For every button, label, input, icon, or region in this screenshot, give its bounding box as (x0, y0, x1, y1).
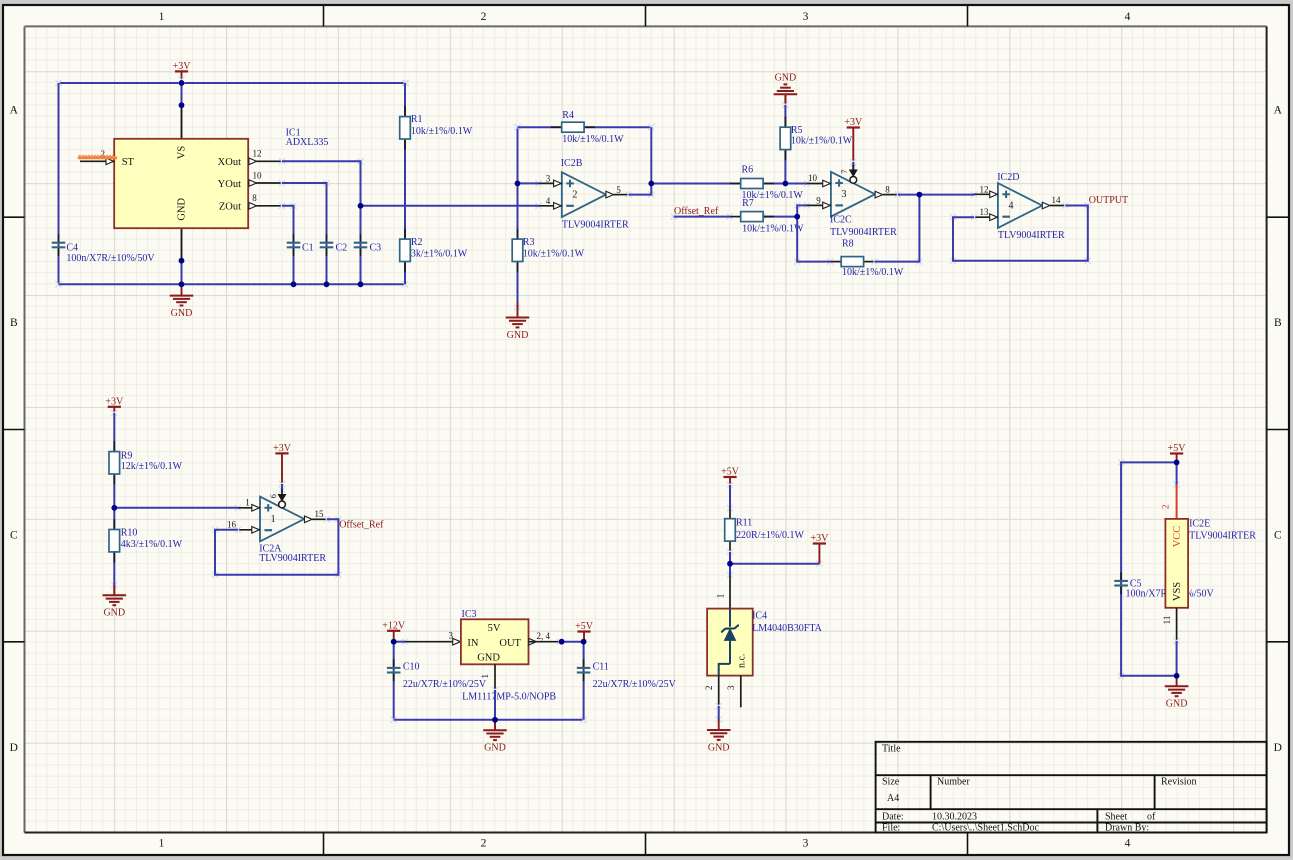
pin IC4 2 (704, 676, 719, 706)
svg-text:R2: R2 (411, 237, 423, 248)
op-amp IC2A V+ power pin bubble (268, 489, 286, 508)
svg-text:R4: R4 (562, 110, 574, 121)
op-amp IC2B (562, 172, 606, 217)
wire XOut to C3 column (279, 158, 364, 164)
svg-text:File:: File: (882, 822, 900, 833)
resistor R5 label (791, 125, 853, 147)
node +12V junction (391, 639, 397, 645)
wire R3 column (514, 124, 520, 311)
pin IC2B 5 output (606, 185, 629, 198)
svg-text:GND: GND (507, 330, 529, 341)
svg-text:7: 7 (839, 170, 849, 174)
svg-text:OUT: OUT (499, 638, 521, 649)
wire GND pin down (492, 687, 498, 693)
svg-text:TLV9004IRTER: TLV9004IRTER (998, 230, 1065, 241)
pin IC2D 13 (974, 207, 998, 221)
pin IC1 VS stub (181, 105, 183, 139)
svg-text:4: 4 (546, 196, 551, 206)
node IC2E bottom junction (1174, 673, 1180, 679)
svg-text:10.30.2023: 10.30.2023 (932, 811, 977, 822)
svg-text:10k/±1%/0.1W: 10k/±1%/0.1W (842, 267, 904, 278)
resistor R10 label (121, 528, 183, 551)
pin IC2E 11 (VSS) (1162, 608, 1176, 641)
node VS wire junction (179, 80, 185, 86)
svg-text:22u/X7R/±10%/25V: 22u/X7R/±10%/25V (593, 679, 677, 690)
ground GND under R3 (517, 302, 519, 308)
svg-text:Offset_Ref: Offset_Ref (674, 206, 719, 217)
svg-text:LM4040B30FTA: LM4040B30FTA (752, 623, 823, 634)
pin IC1 ST (pin 2) (80, 149, 114, 165)
ground GND under IC1 (170, 285, 194, 319)
svg-text:2: 2 (481, 838, 487, 850)
svg-text:ST: ST (122, 157, 135, 168)
wire IC4 pin2 to ground (716, 703, 722, 723)
resistor R7 (730, 212, 774, 222)
node IC2B noninverting node (515, 181, 521, 187)
svg-text:Offset_Ref: Offset_Ref (339, 520, 384, 531)
wire VS supply stub (178, 71, 184, 105)
svg-text:OUTPUT: OUTPUT (1089, 195, 1128, 206)
svg-text:IC2D: IC2D (997, 172, 1019, 183)
svg-text:Revision: Revision (1161, 776, 1197, 787)
svg-text:13: 13 (980, 207, 990, 217)
svg-text:C11: C11 (593, 662, 609, 673)
svg-text:3k/±1%/0.1W: 3k/±1%/0.1W (411, 249, 468, 260)
pin IC2B 4 (539, 196, 562, 209)
wire down to R8 (794, 259, 833, 265)
title block outline (876, 742, 1267, 833)
svg-text:3: 3 (842, 189, 847, 200)
resistor R9 (109, 441, 120, 484)
resistor R9 label (121, 451, 183, 472)
svg-text:10: 10 (808, 173, 818, 183)
component IC1 designator (286, 127, 329, 148)
node VS pin tip junction (179, 102, 185, 108)
svg-text:+5V: +5V (575, 621, 594, 632)
svg-text:R8: R8 (842, 238, 854, 249)
svg-text:R1: R1 (411, 114, 423, 125)
svg-text:2, 4: 2, 4 (537, 631, 551, 641)
svg-text:GND: GND (177, 198, 188, 221)
wire IC2B out to IC2C pin10 (804, 180, 810, 186)
svg-text:1: 1 (480, 674, 490, 679)
ground GND under IC2E (1165, 676, 1189, 710)
op-amp IC2D (998, 183, 1042, 228)
pin IC2D 14 output (1042, 195, 1065, 209)
power +3V for IC2C (844, 117, 863, 128)
svg-text:+3V: +3V (173, 61, 192, 72)
wire +12V stub (393, 631, 395, 642)
svg-text:R9: R9 (121, 451, 133, 462)
svg-text:R10: R10 (121, 528, 138, 539)
svg-text:14: 14 (1052, 195, 1062, 205)
pin IC2A 15 output (305, 509, 327, 522)
svg-text:11: 11 (1162, 616, 1172, 625)
wire node to +3V tap (816, 561, 822, 567)
resistor R1 label (411, 114, 473, 137)
svg-text:8: 8 (252, 193, 257, 203)
svg-text:XOut: XOut (218, 157, 241, 168)
resistor R3 (512, 229, 523, 272)
wire R11 to node (727, 549, 733, 555)
margin row labels left (10, 105, 19, 754)
component IC1 ADXL335 body (114, 139, 248, 228)
svg-text:10: 10 (253, 170, 263, 180)
resistor R10 (109, 519, 120, 562)
svg-text:D: D (10, 742, 18, 754)
pin IC2A 1 (238, 497, 260, 511)
svg-text:Title: Title (882, 744, 901, 755)
svg-text:TLV9004IRTER: TLV9004IRTER (562, 220, 629, 231)
pin IC1 YOut (pin 10) (248, 170, 282, 186)
ground GND under R10 (103, 585, 127, 619)
svg-text:C5: C5 (1130, 579, 1142, 590)
wire divider to IC2A pin1 (235, 505, 241, 511)
node IC2C output junction (917, 192, 923, 198)
power +3V for IC2A (273, 443, 292, 454)
svg-text:+12V: +12V (382, 621, 406, 632)
pin IC4 1 (715, 564, 733, 609)
wire +3V to IC2C power pin (852, 128, 854, 163)
margin row labels right (1274, 105, 1283, 754)
component IC4 body (707, 609, 753, 676)
capacitor C11 (577, 659, 591, 681)
resistor R6 label (742, 165, 804, 201)
svg-text:GND: GND (477, 653, 500, 664)
resistor R8 (830, 257, 874, 267)
svg-text:4: 4 (1125, 11, 1131, 23)
wire +12V to IN pin (402, 639, 408, 645)
wire IC2B output to node (625, 192, 654, 198)
svg-text:12k/±1%/0.1W: 12k/±1%/0.1W (121, 461, 183, 472)
node XOut branch junction (358, 203, 364, 209)
svg-text:3: 3 (449, 631, 454, 641)
capacitor C11 label (593, 662, 677, 690)
zener diode symbol inside IC4 (719, 609, 739, 676)
wire IC2C output to IC2D (895, 192, 977, 198)
svg-text:R6: R6 (742, 165, 754, 176)
resistor R11 label (736, 517, 805, 541)
power +5V at regulator output (575, 621, 594, 632)
wire X signal to IC2B inverting input (535, 203, 541, 209)
svg-text:+3V: +3V (844, 117, 863, 128)
capacitor C10 label (403, 662, 487, 690)
node R7-R8 junction (794, 214, 800, 220)
svg-text:C: C (10, 530, 18, 542)
resistor R2 label (411, 237, 468, 260)
pin IC3 IN (pin 3) (405, 631, 461, 645)
svg-text:3: 3 (803, 838, 809, 850)
capacitor C5 value label (partly hidden) (1126, 589, 1215, 600)
svg-text:15: 15 (315, 509, 325, 519)
svg-text:10k/±1%/0.1W: 10k/±1%/0.1W (562, 134, 624, 145)
svg-text:22u/X7R/±10%/25V: 22u/X7R/±10%/25V (403, 679, 487, 690)
svg-text:C10: C10 (403, 662, 420, 673)
svg-text:4: 4 (1009, 201, 1014, 212)
power +3V for divider (105, 397, 124, 408)
svg-text:IC2E: IC2E (1189, 519, 1210, 530)
pin IC2C 8 output (875, 184, 898, 198)
node IC2E top junction (1174, 460, 1180, 466)
svg-text:Number: Number (937, 776, 970, 787)
svg-text:100n/X7R/±10%/50V: 100n/X7R/±10%/50V (66, 253, 155, 264)
resistor R4 (551, 122, 595, 132)
svg-text:1: 1 (271, 514, 276, 525)
svg-text:10k/±1%/0.1W: 10k/±1%/0.1W (791, 135, 853, 146)
svg-text:220R/±1%/0.1W: 220R/±1%/0.1W (736, 530, 805, 541)
component IC3 body (461, 619, 529, 664)
wire left vertical to C4 (55, 80, 61, 288)
svg-text:ADXL335: ADXL335 (286, 137, 329, 148)
wire R4 down to output node (648, 124, 654, 130)
wire bottom rail IC3 (391, 717, 587, 723)
wire Offset_Ref to R7 and pin 9 (671, 214, 733, 220)
power +5V for R11 (721, 467, 740, 478)
svg-text:VCC: VCC (1172, 526, 1183, 548)
wire IC2B pin3 stub wire (535, 180, 541, 186)
pin IC3 OUT (pins 2,4) (529, 631, 560, 645)
svg-text:VS: VS (177, 146, 188, 160)
wire +5V red stub IC2E (1176, 454, 1178, 463)
ground GND above R5 (flipped) (774, 72, 798, 105)
resistor R7 label (742, 198, 804, 235)
svg-text:1: 1 (245, 497, 250, 507)
svg-text:TLV9004IRTER: TLV9004IRTER (1189, 531, 1256, 542)
svg-text:2: 2 (572, 190, 577, 201)
svg-text:VSS: VSS (1172, 582, 1183, 601)
svg-text:R5: R5 (791, 125, 803, 136)
svg-text:5V: 5V (488, 623, 501, 634)
svg-text:YOut: YOut (218, 179, 241, 190)
pin IC1 XOut (pin 12) (248, 149, 282, 165)
svg-text:2: 2 (704, 686, 714, 691)
svg-text:1: 1 (159, 838, 165, 850)
node R5-R6 junction (783, 181, 789, 187)
wire R4 top run (514, 124, 654, 130)
pin IC2E 2 (VCC, red) (1161, 485, 1176, 519)
wire +3V rail top (55, 80, 409, 86)
svg-text:10k/±1%/0.1W: 10k/±1%/0.1W (411, 126, 473, 137)
wire IN side vertical to C10 (391, 717, 397, 723)
wire bottom ground rail (55, 281, 408, 287)
wire +5V to R11 (727, 477, 733, 511)
node C1 ground junction (291, 281, 297, 287)
wire ZOut to C1 column (279, 203, 297, 209)
resistor R8 label (842, 238, 904, 278)
svg-text:GND: GND (775, 72, 797, 83)
op-amp IC2D designator (997, 172, 1065, 241)
capacitor C2 (320, 234, 334, 256)
svg-text:IC2C: IC2C (830, 214, 852, 225)
svg-text:A: A (10, 105, 19, 117)
op-amp IC2C (831, 172, 875, 217)
svg-text:ZOut: ZOut (219, 202, 241, 213)
svg-text:4: 4 (1125, 838, 1131, 850)
component IC2E designator (1189, 519, 1256, 542)
margin column labels top (159, 11, 1131, 23)
svg-text:Sheet: Sheet (1105, 811, 1127, 822)
svg-text:B: B (10, 317, 18, 329)
svg-text:5: 5 (616, 185, 621, 195)
capacitor C10 (387, 659, 401, 681)
wire R1-R2 column (402, 80, 408, 288)
power +3V (173, 61, 192, 72)
pin IC2C 10 (807, 173, 831, 187)
pin IC2C 9 (807, 196, 831, 209)
capacitor C4 (52, 234, 66, 256)
wire YOut to C2 column (279, 180, 330, 186)
resistor R5 (780, 117, 791, 160)
svg-text:GND: GND (708, 742, 730, 753)
op-amp IC2A (260, 497, 304, 542)
wire C11 column (581, 717, 587, 723)
node R11 junction (727, 561, 733, 567)
svg-text:10k/±1%/0.1W: 10k/±1%/0.1W (742, 224, 804, 235)
node IC1 GND pin tip (179, 258, 185, 264)
component IC2E body (1165, 519, 1188, 608)
pin IC1 GND stub (181, 228, 183, 261)
resistor R11 (725, 508, 736, 551)
node IC3 ground junction (492, 717, 498, 723)
wire +3V to IC2A power pin (279, 453, 285, 493)
svg-text:GND: GND (1166, 699, 1188, 710)
svg-text:IC2B: IC2B (561, 158, 583, 169)
svg-text:Drawn By:: Drawn By: (1105, 822, 1149, 833)
svg-text:D: D (1274, 742, 1282, 754)
node ground rail junction (179, 281, 185, 287)
svg-text:+5V: +5V (721, 467, 740, 478)
wire IC2D feedback loop (950, 202, 1091, 263)
svg-text:4k3/±1%/0.1W: 4k3/±1%/0.1W (121, 539, 183, 550)
node C3 ground junction (358, 281, 364, 287)
svg-text:12: 12 (253, 149, 262, 159)
node OUT pin junction (559, 639, 565, 645)
svg-text:C: C (1274, 530, 1282, 542)
node +5V C11 junction (581, 639, 587, 645)
power +3V tap (810, 533, 829, 544)
wire +5V stub to node (583, 632, 585, 642)
pin IC2D 12 (974, 185, 998, 198)
svg-text:2: 2 (1161, 504, 1171, 509)
wire +3V tap stub (818, 544, 820, 564)
pin IC3 GND (pin 1) (480, 664, 495, 690)
margin row dividers (4, 217, 1289, 642)
svg-text:n.c.: n.c. (737, 654, 748, 668)
no-ERC marker on ST pin (78, 157, 117, 160)
svg-text:3: 3 (803, 11, 809, 23)
wire pin11 to ground node (1174, 638, 1180, 644)
op-amp IC2A designator (259, 544, 326, 564)
wire OUT to +5V node (556, 639, 562, 645)
ground GND under IC3 (494, 720, 496, 730)
component IC4 designator (752, 611, 823, 634)
svg-text:GND: GND (484, 743, 506, 754)
svg-text:C3: C3 (370, 243, 382, 254)
svg-text:+5V: +5V (1168, 443, 1187, 454)
resistor R6 (730, 179, 774, 189)
pin IC2A 16 (227, 520, 260, 534)
svg-text:LM1117MP-5.0/NOPB: LM1117MP-5.0/NOPB (462, 691, 556, 702)
op-amp IC2C designator (830, 214, 897, 238)
svg-text:IN: IN (467, 638, 478, 649)
svg-text:IC3: IC3 (462, 609, 477, 620)
margin column dividers (324, 5, 968, 855)
resistor R4 label (562, 110, 624, 145)
capacitor C4 label (66, 243, 155, 264)
svg-text:12: 12 (980, 185, 989, 195)
wire C5 bypass loop (1118, 459, 1124, 679)
svg-text:+3V: +3V (273, 443, 292, 454)
wire R8 to IC2C output node (871, 259, 922, 265)
svg-text:8: 8 (885, 184, 890, 194)
node IC2B output junction (648, 181, 654, 187)
svg-text:IC4: IC4 (752, 611, 767, 622)
svg-text:6: 6 (268, 494, 278, 498)
pin IC1 ZOut (pin 8) (248, 193, 282, 209)
svg-text:R7: R7 (742, 198, 754, 209)
capacitor C1 (287, 234, 301, 256)
ground GND under IC4 (707, 720, 731, 754)
svg-text:TLV9004IRTER: TLV9004IRTER (830, 227, 897, 238)
svg-text:R3: R3 (523, 237, 535, 248)
svg-text:Date:: Date: (882, 811, 904, 822)
svg-text:GND: GND (171, 308, 193, 319)
svg-text:C1: C1 (302, 243, 314, 254)
op-amp IC2B designator (561, 158, 629, 231)
svg-text:C2: C2 (336, 243, 348, 254)
pin IC4 3 (n.c.) (726, 676, 741, 708)
power +12V (382, 621, 406, 632)
wire R9-R10 column (111, 407, 117, 596)
title block labels (882, 744, 1197, 834)
svg-text:1: 1 (715, 594, 725, 599)
svg-text:B: B (1274, 317, 1282, 329)
capacitor C3 (354, 234, 368, 256)
capacitor C5 (1114, 572, 1128, 594)
margin column labels bottom (159, 838, 1131, 850)
svg-text:GND: GND (103, 608, 125, 619)
svg-text:of: of (1147, 811, 1156, 822)
node C2 ground junction (324, 281, 330, 287)
svg-text:+3V: +3V (810, 533, 829, 544)
svg-text:9: 9 (816, 196, 821, 206)
svg-text:10k/±1%/0.1W: 10k/±1%/0.1W (523, 249, 585, 260)
node divider junction (111, 505, 117, 511)
svg-text:Size: Size (882, 776, 900, 787)
wire IC2E pin2 blue segment (1174, 482, 1180, 488)
power +5V for IC2E (1168, 443, 1187, 454)
svg-text:3: 3 (546, 174, 551, 184)
wire IC2A feedback loop (212, 516, 342, 578)
svg-text:16: 16 (227, 520, 237, 530)
resistor R3 label (523, 237, 585, 260)
wire R5 column (782, 94, 788, 183)
svg-text:1: 1 (159, 11, 165, 23)
svg-text:3: 3 (726, 685, 736, 690)
resistor R1 (400, 106, 411, 149)
op-amp IC2C V+ power pin bubble (839, 165, 857, 184)
svg-text:2: 2 (481, 11, 487, 23)
svg-text:TLV9004IRTER: TLV9004IRTER (259, 553, 326, 564)
pin IC2B 3 (539, 174, 562, 187)
svg-text:A: A (1274, 105, 1283, 117)
svg-text:A4: A4 (887, 793, 899, 804)
svg-text:R11: R11 (736, 517, 752, 528)
svg-text:+3V: +3V (105, 397, 124, 408)
wire IC1 GND to rail (0, 0, 1, 1)
resistor R2 (400, 229, 411, 272)
svg-text:C:\Users\..\Sheet1.SchDoc: C:\Users\..\Sheet1.SchDoc (932, 822, 1039, 833)
